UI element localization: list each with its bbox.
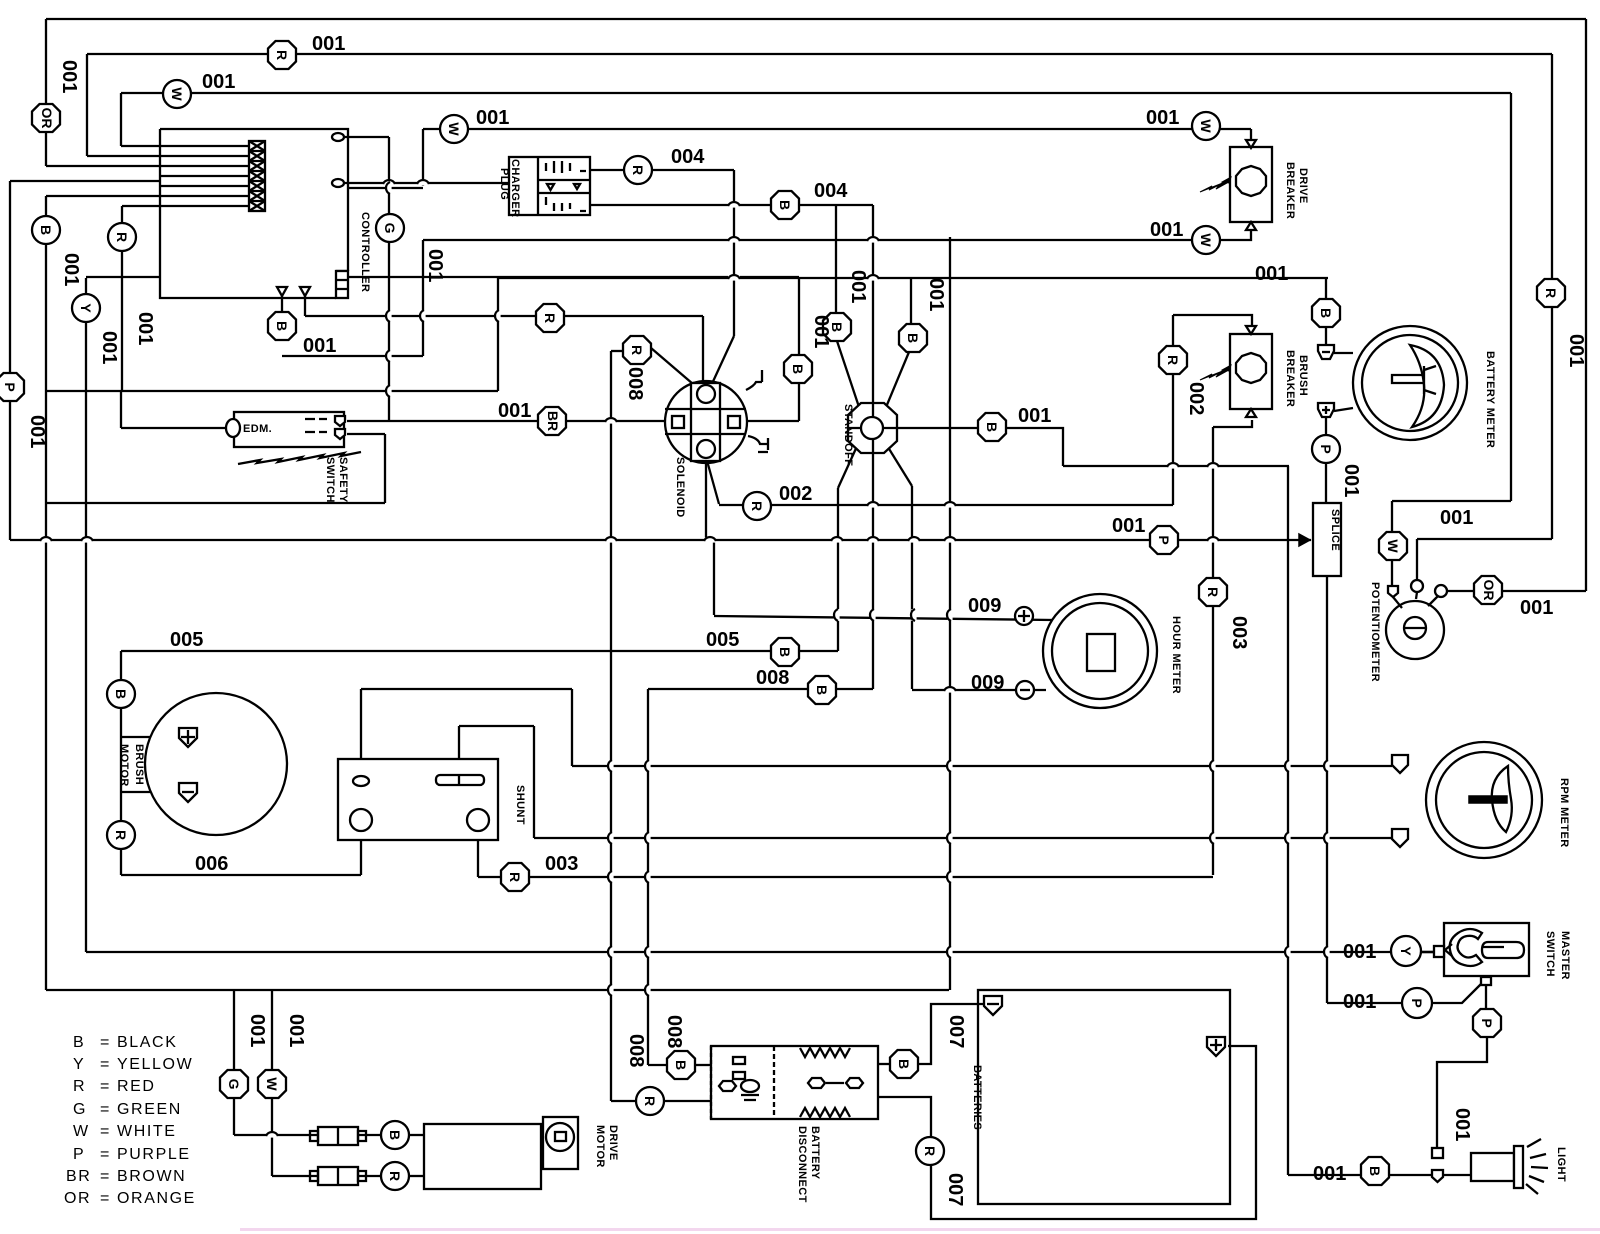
svg-text:008: 008 (625, 1034, 647, 1067)
wire y689 shunt sense (361, 688, 572, 690)
tag R x122 (108, 223, 136, 251)
wire brush breaker bottom lead (1213, 420, 1252, 427)
svg-text:P: P (73, 1146, 85, 1163)
svg-text:001: 001 (1255, 263, 1288, 285)
svg-text:=: = (100, 1123, 111, 1140)
tag W drive breaker bottom (1192, 226, 1220, 254)
wire 004 lower (590, 204, 873, 206)
solenoid contact finger lower (748, 436, 768, 452)
svg-text:W: W (169, 87, 185, 101)
svg-text:=: = (100, 1056, 111, 1073)
svg-text:007: 007 (945, 1015, 967, 1048)
svg-text:CONTROLLER: CONTROLLER (359, 212, 371, 292)
svg-text:001: 001 (1112, 515, 1145, 537)
svg-text:004: 004 (814, 180, 848, 202)
wire x121 upper (120, 93, 122, 146)
svg-text:R: R (542, 313, 558, 323)
wire light B wire (1288, 1174, 1360, 1176)
tag W drive motor (258, 1070, 286, 1098)
wire x423 lower (422, 240, 424, 356)
tag B x799 (784, 355, 812, 383)
wire B395 to motor (409, 1134, 424, 1136)
svg-text:R: R (113, 830, 129, 840)
tag R 003 (501, 863, 529, 891)
potentiometer (1369, 580, 1447, 682)
tag R y316 (536, 304, 564, 332)
svg-text:HOUR METER: HOUR METER (1170, 616, 1182, 694)
wire x389 green (388, 137, 390, 421)
wire connector row4 (10, 180, 249, 182)
svg-text:B: B (814, 685, 830, 695)
wire y466 (1063, 465, 1289, 467)
svg-text:001: 001 (1520, 597, 1553, 619)
disconnect springs (800, 1048, 850, 1117)
wire connector row7 (122, 205, 249, 207)
wire y875 006 (121, 874, 361, 876)
svg-text:001: 001 (810, 315, 832, 348)
wire y690 hourmeter minus (912, 689, 1046, 691)
wire left vertical x86 lower (85, 278, 87, 952)
svg-text:P: P (1156, 535, 1172, 544)
wire x121 mid (120, 391, 122, 428)
brush motor plus terminal (179, 728, 197, 747)
tag OR top-left (32, 104, 60, 132)
tag B 004 (771, 191, 799, 219)
svg-text:002: 002 (779, 483, 812, 505)
svg-text:B: B (1367, 1166, 1383, 1176)
wire x799 (798, 277, 800, 421)
tag B battery meter (1312, 299, 1340, 327)
svg-text:=: = (100, 1168, 111, 1185)
brush breaker lightning (1200, 365, 1231, 380)
solenoid (665, 370, 768, 518)
tag Y x86 (72, 294, 100, 322)
safety switch lever (238, 452, 361, 464)
wire P1417 to switch diagonal (1431, 984, 1481, 1003)
svg-text:001: 001 (60, 253, 82, 286)
svg-text:G: G (73, 1101, 87, 1118)
safety switch (226, 412, 361, 503)
tag B x836 (823, 313, 851, 341)
svg-text:001: 001 (1451, 1108, 1473, 1141)
wire solenoid top diagonal (710, 336, 734, 388)
wire fuse2 to R (358, 1175, 381, 1177)
svg-text:BRUSH: BRUSH (133, 744, 145, 785)
wire hops (40, 180, 1330, 1138)
svg-text:YELLOW: YELLOW (117, 1056, 193, 1073)
wire x498 (497, 278, 499, 391)
svg-text:R: R (387, 1171, 403, 1181)
svg-text:001: 001 (58, 60, 80, 93)
tag Y master switch (1391, 936, 1421, 966)
svg-text:001: 001 (1343, 991, 1376, 1013)
svg-text:001: 001 (498, 400, 531, 422)
svg-text:005: 005 (170, 629, 203, 651)
svg-text:R: R (629, 345, 645, 355)
wire x1173 (1172, 315, 1174, 505)
svg-text:001: 001 (134, 312, 156, 345)
svg-text:BR: BR (66, 1168, 91, 1185)
brush motor (118, 693, 287, 835)
svg-text:R: R (749, 501, 765, 511)
svg-text:R: R (507, 872, 523, 882)
svg-text:BATTERIES: BATTERIES (971, 1065, 983, 1130)
wire B1375 to light (1390, 1174, 1432, 1176)
svg-text:B: B (790, 364, 806, 374)
legend (64, 1034, 196, 1207)
wire connector row1 (121, 145, 249, 147)
svg-text:R: R (922, 1146, 938, 1156)
svg-text:006: 006 (195, 853, 228, 875)
svg-text:B: B (777, 647, 793, 657)
wire x611 to R650 (611, 1100, 636, 1102)
wire x950 (949, 237, 951, 990)
wire x1288 (1287, 466, 1289, 1175)
svg-text:005: 005 (706, 629, 739, 651)
wire x911 (910, 278, 912, 325)
svg-text:001: 001 (246, 1014, 268, 1047)
wire y501 to pot left (1392, 500, 1511, 502)
controller terminal 2 (332, 179, 344, 187)
svg-text:001: 001 (1340, 464, 1362, 497)
wire 004 top (590, 169, 734, 171)
wire y952 long (86, 951, 1434, 953)
wire disconnect lower to R930 (878, 1097, 931, 1137)
tag W drive breaker top (1192, 112, 1220, 140)
wire y391 (46, 390, 498, 392)
wire x122 R stub (121, 206, 123, 391)
brush motor minus terminal (179, 783, 197, 802)
pot mid terminal (1411, 580, 1423, 592)
svg-text:001: 001 (1343, 941, 1376, 963)
tag R x1552 (1537, 279, 1565, 307)
svg-text:RED: RED (117, 1078, 156, 1095)
svg-text:SWITCH: SWITCH (324, 457, 336, 503)
svg-text:001: 001 (925, 278, 947, 311)
svg-text:001: 001 (1440, 507, 1473, 529)
tag W 001 y93 (163, 80, 191, 108)
wire left vertical x87 upper (86, 54, 88, 156)
wire B992 to y466 (1006, 428, 1063, 466)
standoff (842, 403, 897, 466)
svg-text:POTENTIOMETER: POTENTIOMETER (1369, 582, 1381, 682)
wire y877 003 (478, 876, 1213, 878)
tag B fuse1 (381, 1121, 409, 1149)
wire second border top y54 (87, 53, 1552, 55)
wire y1003 master switch (1327, 1002, 1403, 1004)
svg-text:=: = (100, 1034, 111, 1051)
svg-text:R: R (274, 50, 290, 60)
wire y838 bus (534, 837, 1392, 839)
wire x1417 pot mid (1416, 539, 1418, 580)
hour meter plus terminal (1015, 607, 1033, 625)
tag R 002 (743, 492, 771, 520)
svg-text:SOLENOID: SOLENOID (674, 457, 686, 518)
svg-text:001: 001 (1313, 1163, 1346, 1185)
wire y315 brush breaker top (1173, 315, 1252, 326)
wire standoff SE diagonal (886, 444, 912, 486)
tag G drive motor (220, 1070, 248, 1098)
wire x272 white motor (271, 990, 273, 1176)
svg-text:W: W (1198, 233, 1214, 247)
tag G x389 (376, 214, 404, 242)
svg-text:P: P (1409, 998, 1425, 1007)
svg-text:SWITCH: SWITCH (1544, 931, 1556, 977)
drive breaker (1200, 140, 1309, 230)
wire connector row2 (87, 155, 249, 157)
svg-text:R: R (1205, 587, 1221, 597)
wire pot right to OR (1447, 590, 1474, 592)
light (1432, 1139, 1567, 1194)
svg-text:B: B (777, 200, 793, 210)
rpm meter lower terminal (1392, 829, 1408, 847)
faint scanner line bottom (240, 1228, 1600, 1231)
wire y434 safety lower (347, 433, 385, 435)
tag R 007 (916, 1137, 944, 1165)
battery meter minus terminal (1318, 345, 1334, 359)
wire Y1406 leads (1390, 951, 1434, 953)
svg-text:001: 001 (303, 335, 336, 357)
wire y689 008 to B822 (648, 688, 873, 690)
svg-text:=: = (100, 1190, 111, 1207)
wire x611 008 long (610, 351, 612, 1101)
hour meter minus terminal (1016, 681, 1034, 699)
wire B681 to disconnect (695, 1064, 711, 1066)
wire R395 to motor (409, 1175, 424, 1177)
wire x734 (733, 170, 735, 336)
charger plug (498, 157, 590, 217)
wire brush minus lead (121, 791, 180, 793)
svg-text:001: 001 (1150, 219, 1183, 241)
wire x1392 W pot (1391, 501, 1393, 585)
svg-text:B: B (73, 1034, 85, 1051)
wire x572 (571, 689, 573, 766)
tag P battery meter (1312, 435, 1340, 463)
wire x873 lower (872, 453, 874, 689)
wire outer border top y19 (46, 18, 1586, 20)
svg-text:W: W (1198, 119, 1214, 133)
wire B904 up to batteries minus (918, 1004, 984, 1064)
svg-text:001: 001 (312, 33, 345, 55)
wire x703 solenoid top lead (702, 316, 704, 386)
svg-text:BROWN: BROWN (117, 1168, 186, 1185)
tag B pin1 (268, 312, 296, 340)
controller pin B (300, 287, 310, 296)
tag P y540 (1150, 526, 1178, 554)
wire third border right x1511 (1510, 93, 1512, 501)
wire x478 shunt right lower (477, 831, 479, 877)
wire arrow junction splice (1299, 534, 1310, 546)
hour meter (1015, 594, 1182, 708)
wire y726 (459, 725, 534, 727)
svg-text:LIGHT: LIGHT (1555, 1147, 1567, 1182)
svg-text:BREAKER: BREAKER (1284, 350, 1296, 407)
controller pin A (277, 287, 287, 296)
wire brush plus lead (121, 736, 180, 738)
wire left vertical x46 lower (45, 196, 47, 990)
wire connector row3 (46, 165, 249, 167)
pot left terminal (1388, 586, 1398, 597)
wire y1135 fuse1 (234, 1134, 318, 1136)
svg-text:W: W (1385, 539, 1401, 553)
wire y278 long (498, 277, 1328, 279)
wire y316 controller pin2 (305, 315, 703, 317)
wire y428 to safety left (121, 427, 227, 429)
wire OR to border (1502, 590, 1586, 592)
svg-text:DRIVE: DRIVE (1297, 168, 1309, 204)
wire switch bottom lead (1485, 977, 1487, 1010)
svg-text:SPLICE: SPLICE (1329, 509, 1341, 551)
svg-text:B: B (896, 1059, 912, 1069)
wire splice bottom x1327 (1326, 576, 1328, 1003)
tag W pot (1379, 532, 1407, 560)
wire R637 to solenoid diagonal (651, 348, 700, 390)
svg-text:W: W (264, 1077, 280, 1091)
wire shunt slot vertical (458, 726, 460, 777)
svg-text:BREAKER: BREAKER (1284, 162, 1296, 219)
tag R x1213 (1199, 578, 1227, 606)
svg-text:G: G (382, 223, 398, 234)
wire y1176 fuse2 (272, 1175, 318, 1177)
wire plus to P (1325, 417, 1327, 436)
svg-text:B: B (1318, 308, 1334, 318)
wire light terminal to body (1444, 1174, 1471, 1176)
svg-text:OR: OR (39, 108, 55, 129)
wire solenoid right to B798 (741, 420, 799, 422)
svg-text:001: 001 (847, 270, 869, 303)
svg-text:R: R (73, 1078, 86, 1095)
controller pin block right (336, 271, 348, 298)
svg-text:001: 001 (1565, 334, 1587, 367)
svg-text:OR: OR (64, 1190, 91, 1207)
wire x837 to 005 (837, 488, 839, 651)
wire y989 long (46, 989, 949, 991)
svg-text:RPM METER: RPM METER (1558, 778, 1570, 848)
rpm meter (1392, 742, 1570, 858)
svg-text:B: B (673, 1060, 689, 1070)
wire outer border right x1586 (1585, 19, 1587, 591)
svg-text:WHITE: WHITE (117, 1123, 177, 1140)
svg-text:ORANGE: ORANGE (117, 1190, 196, 1207)
svg-text:R: R (642, 1096, 658, 1106)
tag B x911 (899, 324, 927, 352)
svg-text:MOTOR: MOTOR (594, 1125, 606, 1168)
tag R x1173 (1159, 346, 1187, 374)
svg-text:B: B (905, 333, 921, 343)
wire solenoid bottom diagonal (706, 457, 719, 504)
svg-text:MOTOR: MOTOR (118, 744, 130, 787)
svg-text:BATTERY METER: BATTERY METER (1484, 351, 1496, 448)
tag B y427 (978, 413, 1006, 441)
svg-text:001: 001 (476, 107, 509, 129)
battery disconnect (711, 1046, 878, 1203)
wire second border right x1552 (1551, 54, 1553, 539)
svg-text:001: 001 (424, 249, 446, 282)
svg-text:BR: BR (545, 411, 561, 431)
batteries terminals (971, 996, 1225, 1130)
svg-text:001: 001 (202, 71, 235, 93)
wire y505 002 (719, 504, 1173, 506)
wire left vertical x46 upper (45, 19, 47, 166)
svg-text:002: 002 (1185, 382, 1207, 415)
svg-text:=: = (100, 1146, 111, 1163)
wire B913 diagonal to standoff (884, 352, 909, 412)
svg-text:001: 001 (1018, 405, 1051, 427)
wire third border top y92 (121, 92, 1511, 94)
battery meter plus terminal (1318, 403, 1334, 417)
svg-text:Y: Y (78, 303, 94, 313)
svg-text:009: 009 (968, 595, 1001, 617)
wire controller term2 lead (344, 182, 509, 184)
wire B837 diagonal to standoff (837, 341, 861, 413)
svg-text:003: 003 (545, 853, 578, 875)
svg-text:Y: Y (1398, 946, 1414, 956)
splice (1313, 503, 1341, 576)
rpm meter upper terminal (1392, 755, 1408, 773)
svg-text:B: B (984, 422, 1000, 432)
svg-text:=: = (100, 1101, 111, 1118)
drive motor fuse 1 (318, 1127, 358, 1145)
wire left vertical x10 (9, 181, 11, 540)
svg-text:EDM.: EDM. (243, 423, 272, 435)
svg-text:DRIVE: DRIVE (607, 1125, 619, 1161)
svg-text:BLACK: BLACK (117, 1034, 177, 1051)
wire y540 purple long (10, 539, 1311, 541)
svg-text:007: 007 (944, 1173, 966, 1206)
svg-text:SHUNT: SHUNT (514, 785, 526, 825)
svg-text:Y: Y (73, 1056, 85, 1073)
drive breaker lightning (1200, 177, 1231, 192)
wire y541 to pot mid (1417, 538, 1552, 540)
wire y356 B001 (282, 355, 423, 357)
svg-text:PURPLE: PURPLE (117, 1146, 191, 1163)
svg-text:R: R (114, 232, 130, 242)
svg-text:001: 001 (26, 415, 48, 448)
master switch (1434, 923, 1571, 985)
tag B brush motor (107, 680, 135, 708)
wire y766 bus (572, 765, 1392, 767)
tag R 001 y54 (268, 41, 296, 69)
wire R637 lead (611, 350, 623, 352)
drive motor (310, 1117, 619, 1189)
wire y277 left to controller (86, 276, 336, 278)
tag B 008/009 (808, 676, 836, 704)
shunt (338, 759, 526, 840)
svg-text:W: W (73, 1123, 90, 1140)
tag R fuse2 (381, 1162, 409, 1190)
wire x710 solenoid bottom (706, 457, 714, 615)
svg-text:B: B (387, 1130, 403, 1140)
wire P to splice (1325, 462, 1327, 503)
svg-text:001: 001 (285, 1014, 307, 1047)
wire disconnect to B904 (878, 1063, 890, 1065)
wire P1487 down (1437, 1037, 1487, 1148)
wire standoff E ray (884, 427, 978, 429)
wire 008 B to disconnect (648, 1064, 667, 1066)
svg-text:STANDOFF: STANDOFF (842, 404, 854, 466)
wire breaker top lead (1250, 129, 1252, 140)
tag OR pot (1474, 576, 1502, 604)
wire controller term1 lead (344, 136, 389, 138)
wire x873 upper (872, 205, 874, 403)
svg-text:001: 001 (98, 331, 120, 364)
svg-text:R: R (1165, 355, 1181, 365)
svg-text:OR: OR (1481, 580, 1497, 601)
svg-text:008: 008 (756, 667, 789, 689)
tag B x46 (32, 216, 60, 244)
tag B 007 (890, 1050, 918, 1078)
tag R 008 solenoid (623, 336, 651, 364)
